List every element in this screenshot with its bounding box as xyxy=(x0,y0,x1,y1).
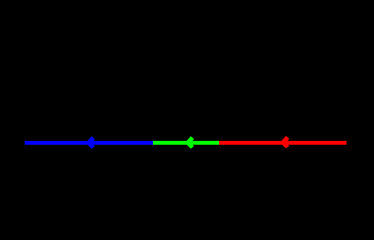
node green arrowhead xyxy=(185,136,194,149)
wire red vector segment xyxy=(219,141,347,145)
node blue arrowhead xyxy=(86,136,95,149)
node red arrowhead xyxy=(280,136,289,149)
wire blue vector segment xyxy=(25,141,153,145)
wire green vector segment xyxy=(153,141,219,145)
